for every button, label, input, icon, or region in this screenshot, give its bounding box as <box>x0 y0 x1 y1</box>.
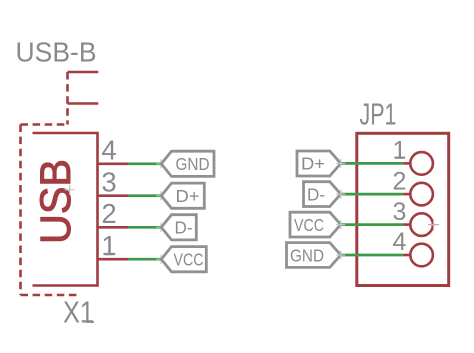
wire D+ net (left) <box>128 194 161 197</box>
X1 pin 4 stub <box>98 163 129 166</box>
svg-text:D+: D+ <box>176 186 200 206</box>
svg-text:4: 4 <box>101 135 116 166</box>
svg-text:1: 1 <box>393 137 407 165</box>
JP1 pin 1 stub <box>403 162 411 165</box>
svg-text:GND: GND <box>176 154 210 174</box>
JP1 pin number 1 foot serif <box>395 157 403 159</box>
svg-text:VCC: VCC <box>294 215 324 235</box>
net flag D- (left, points left) <box>161 215 196 240</box>
svg-text:3: 3 <box>393 198 407 226</box>
net flag VCC (left, points left) <box>161 247 206 272</box>
svg-text:4: 4 <box>393 228 407 256</box>
svg-text:2: 2 <box>101 198 116 229</box>
net flag GND (left, points left) <box>161 151 214 176</box>
wire GND net (right) <box>341 254 403 257</box>
junction cross right VCC tip <box>336 220 345 229</box>
junction cross right GND tip <box>336 251 345 260</box>
svg-text:GND: GND <box>290 245 324 265</box>
JP1 pin 4 circle <box>410 244 433 267</box>
JP1 pin 2 circle <box>410 183 433 206</box>
X1 shield dashed outline top <box>21 123 68 126</box>
net flag VCC (right, points right) <box>290 212 341 237</box>
JP1 pin 4 stub <box>403 254 411 257</box>
svg-text:2: 2 <box>393 167 407 195</box>
svg-text:1: 1 <box>101 230 116 261</box>
X1 designator 1 foot serif <box>86 321 94 323</box>
net flag D+ (left, points left) <box>161 183 204 208</box>
JP1 pin 2 stub <box>403 193 411 196</box>
junction cross GND flag tip <box>157 159 166 168</box>
wire GND net (left) <box>128 162 161 165</box>
svg-text:D-: D- <box>175 218 193 238</box>
svg-text:D-: D- <box>307 184 325 204</box>
X1 shield pin S1 <box>68 71 99 74</box>
svg-text:USB: USB <box>32 159 80 244</box>
X1 shield dashed outline bottom <box>21 294 78 297</box>
X1 shield dashed riser wire <box>66 72 69 125</box>
JP1 part origin cross (faint red) <box>428 219 439 230</box>
svg-text:X1: X1 <box>63 295 94 330</box>
junction cross D+ flag tip <box>157 191 166 200</box>
X1 part origin cross <box>65 185 75 195</box>
header JP1 body outline <box>357 133 449 285</box>
X1 pin 1 stub <box>98 258 129 261</box>
svg-text:VCC: VCC <box>174 250 204 270</box>
net flag GND (right, points right) <box>287 243 341 268</box>
connector X1 body outline <box>33 133 98 286</box>
svg-text:D+: D+ <box>301 154 325 174</box>
junction cross right D- tip <box>336 190 345 199</box>
junction cross right D+ tip <box>336 159 345 168</box>
X1 pin 3 stub <box>98 194 129 197</box>
wire D- net (right) <box>341 193 403 196</box>
net flag D+ (right, points right) <box>297 151 341 176</box>
junction cross D- flag tip <box>157 223 166 232</box>
junction cross VCC flag tip <box>157 255 166 264</box>
X1 shield pin S2 <box>68 102 99 105</box>
X1 shield dashed outline left <box>19 125 22 296</box>
svg-text:3: 3 <box>101 167 116 198</box>
X1 pin 2 stub <box>98 226 129 229</box>
X1 pin number 1 foot serif <box>105 254 113 256</box>
svg-text:USB-B: USB-B <box>16 36 97 67</box>
wire D+ net (right) <box>341 162 403 165</box>
JP1 pin 3 circle <box>410 213 433 236</box>
wire VCC net (right) <box>341 223 403 226</box>
wire D- net (left) <box>128 226 161 229</box>
wire VCC net (left) <box>128 258 161 261</box>
JP1 pin 1 circle <box>410 152 433 175</box>
net flag D- (right, points right) <box>304 182 341 207</box>
JP1 pin 3 stub <box>403 223 411 226</box>
svg-text:JP1: JP1 <box>360 97 397 132</box>
